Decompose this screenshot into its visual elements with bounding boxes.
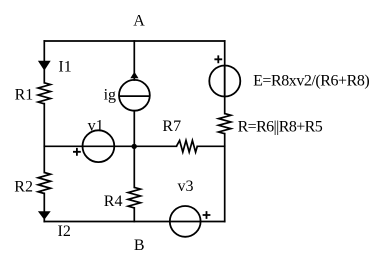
junction node dot xyxy=(132,144,137,149)
svg-text:R2: R2 xyxy=(14,178,33,195)
plus sign of v1 xyxy=(73,148,81,156)
current source ig arrow xyxy=(130,72,138,79)
svg-text:R7: R7 xyxy=(162,118,181,135)
wire middle branch center (ig source to R4) xyxy=(133,111,135,188)
resistor R7 xyxy=(176,141,197,153)
svg-text:I2: I2 xyxy=(58,223,71,240)
svg-text:R1: R1 xyxy=(15,86,34,103)
resistor R1 xyxy=(38,83,50,104)
svg-text:I1: I1 xyxy=(58,58,71,75)
wire bottom B rail (through v3) xyxy=(44,221,224,223)
resistor R4 xyxy=(128,187,140,207)
plus sign of E xyxy=(214,55,222,63)
wire left branch middle (R1 to R2) xyxy=(43,104,45,173)
wire top A rail xyxy=(44,40,224,42)
svg-text:v3: v3 xyxy=(178,178,194,195)
current arrow I1 xyxy=(38,61,51,71)
current source ig bar xyxy=(119,95,150,97)
current arrow I2 xyxy=(38,211,51,220)
voltage source v1 circle xyxy=(83,130,115,162)
wire left branch upper (top rail to R1) xyxy=(43,41,45,83)
svg-text:A: A xyxy=(133,13,145,30)
svg-text:R4: R4 xyxy=(104,193,123,210)
resistor R (right branch) xyxy=(219,114,231,134)
resistor R2 xyxy=(38,173,50,194)
wire middle branch upper (top rail to ig source) xyxy=(133,41,135,80)
voltage source E circle xyxy=(209,66,240,97)
wire right branch (top rail through E source to bottom rail) xyxy=(224,41,226,114)
wire right branch lower (R to bottom rail) xyxy=(224,134,226,222)
svg-text:E=R8xv2/(R6+R8): E=R8xv2/(R6+R8) xyxy=(253,73,369,90)
wire middle horizontal right segment (R7 to right branch) xyxy=(197,145,224,147)
voltage source v3 circle xyxy=(170,206,201,237)
wire middle branch lower (R4 to bottom rail) xyxy=(133,208,135,222)
svg-text:R=R6||R8+R5: R=R6||R8+R5 xyxy=(238,119,323,136)
plus sign of v3 xyxy=(203,211,211,219)
wire left branch lower (R2 to bottom rail) xyxy=(43,193,45,221)
svg-text:ig: ig xyxy=(104,87,116,104)
wire right branch through E circle xyxy=(224,66,226,97)
svg-text:v1: v1 xyxy=(88,118,104,135)
wire middle horizontal left segment (through v1) xyxy=(44,145,176,147)
current source ig circle xyxy=(119,80,150,111)
svg-text:B: B xyxy=(134,237,145,254)
